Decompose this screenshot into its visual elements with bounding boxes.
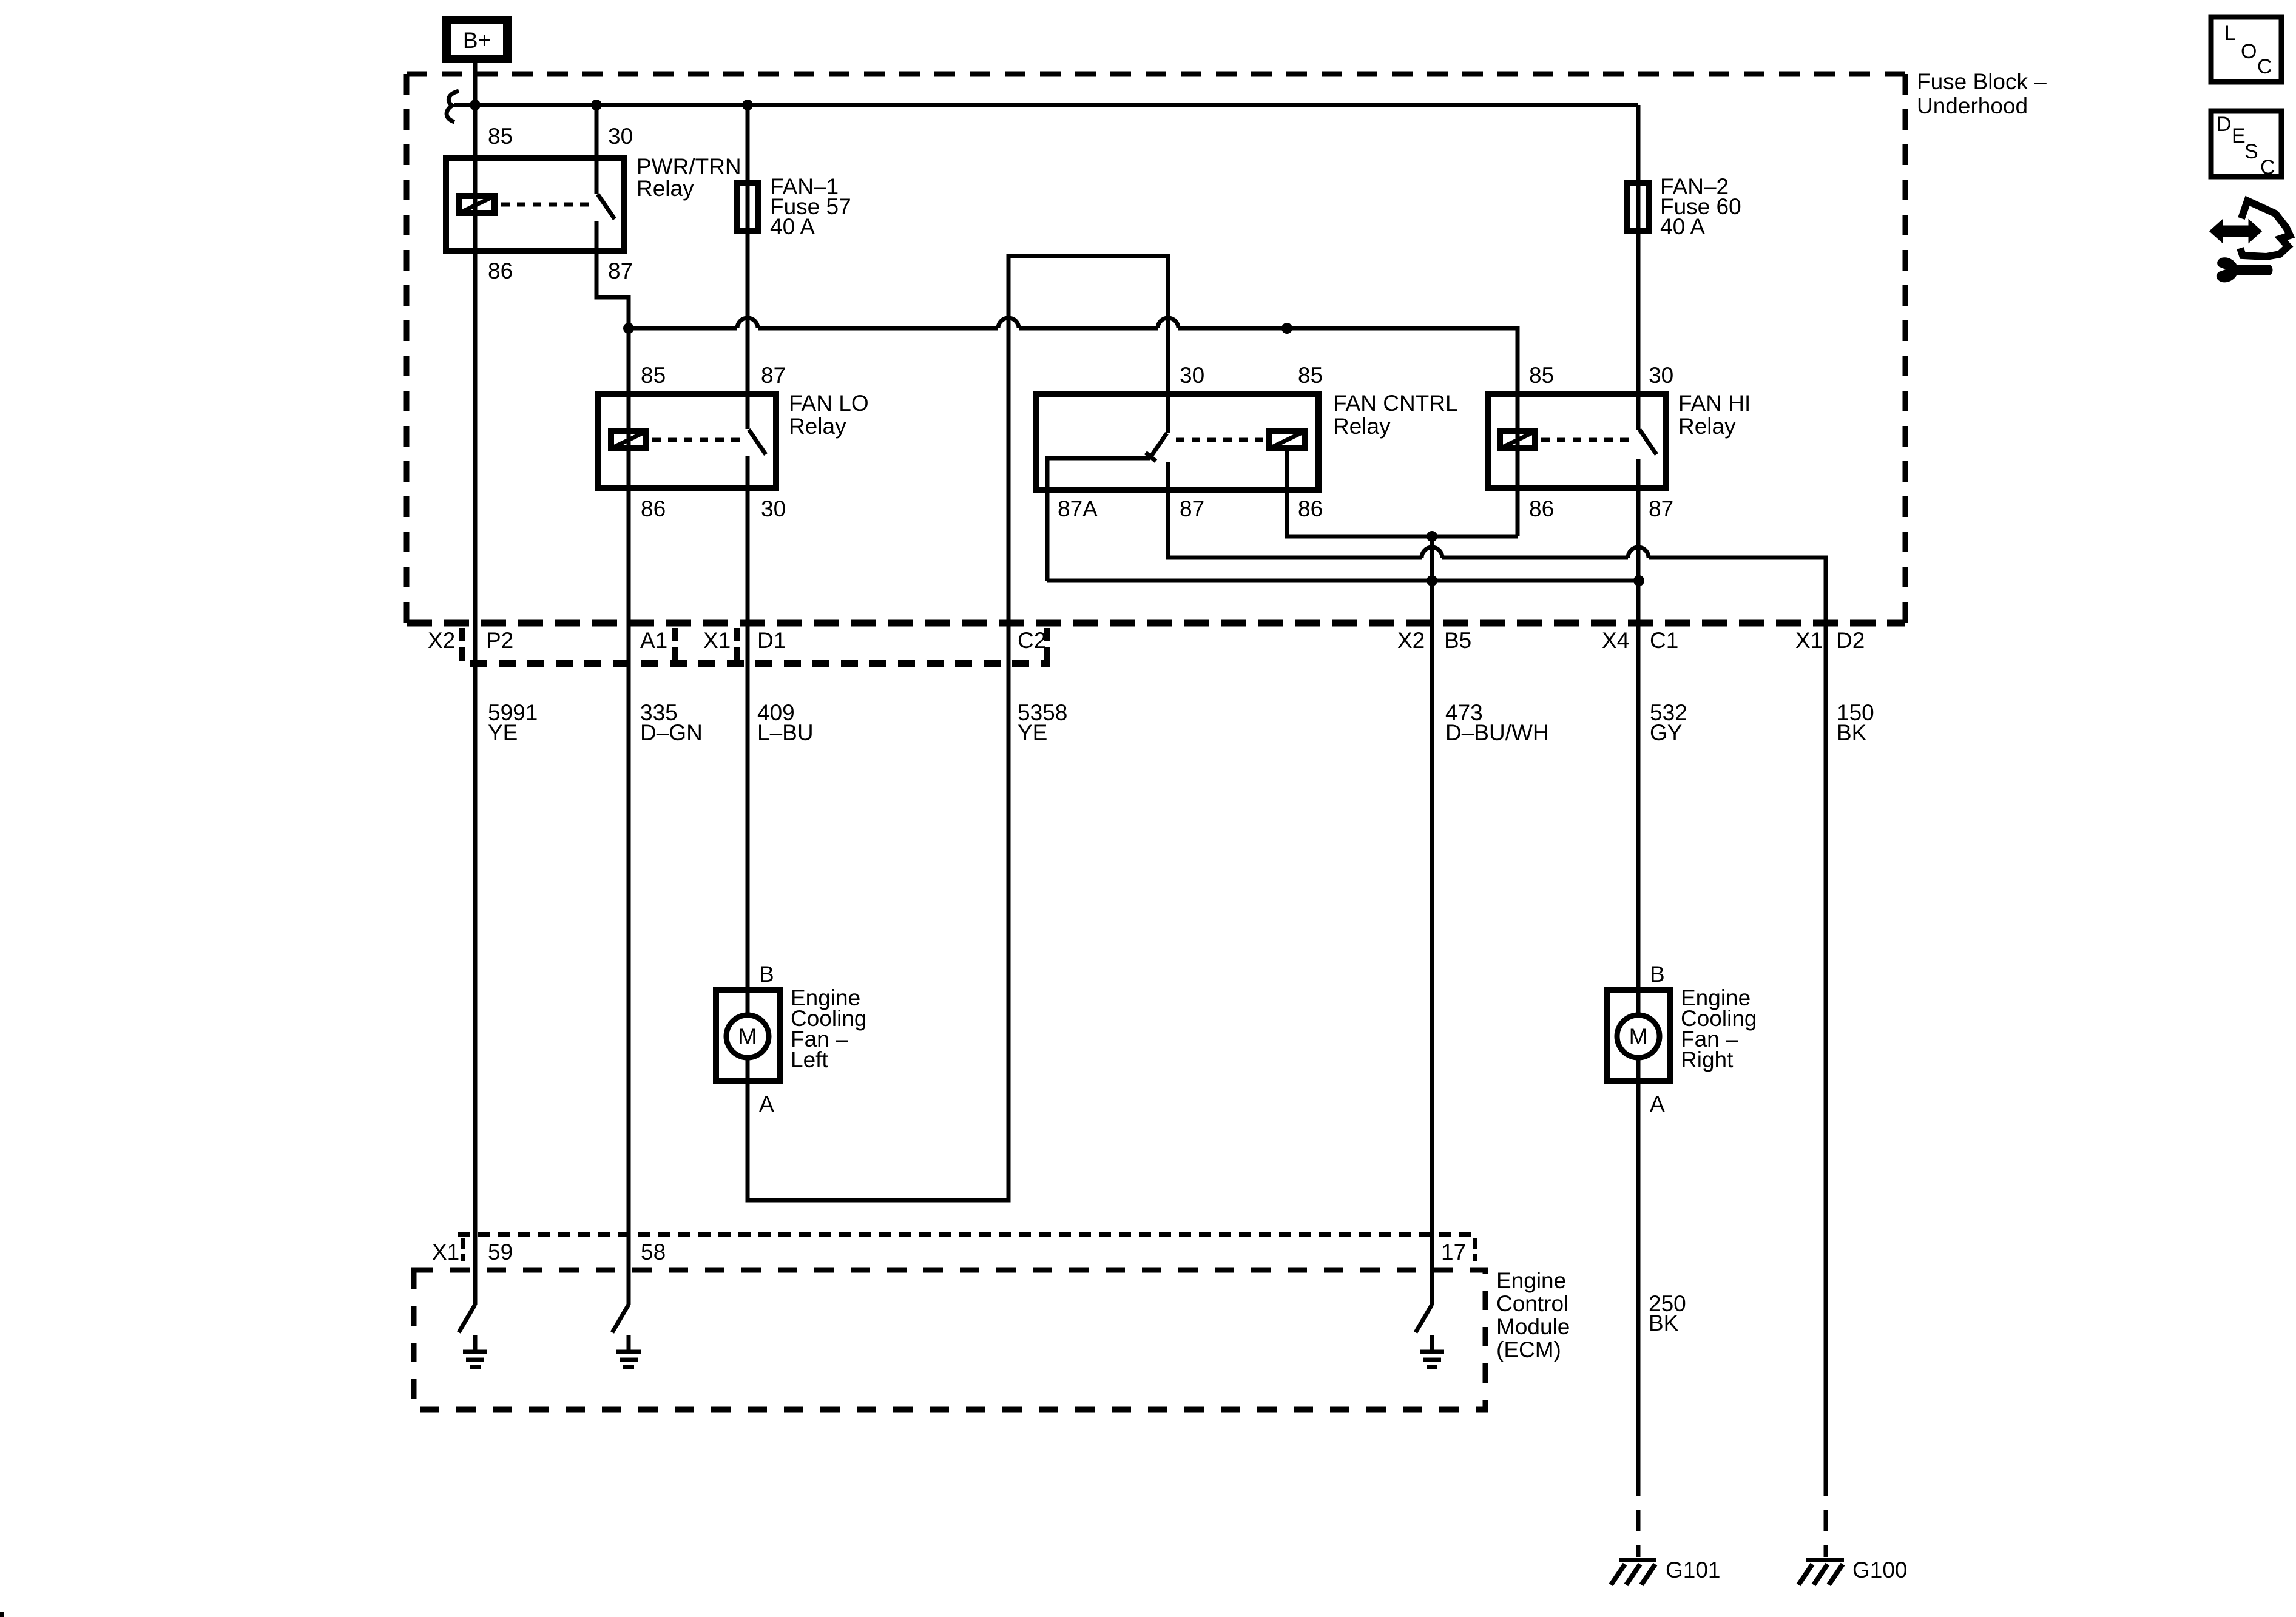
relay FAN CNTRL coil [1269,431,1305,448]
relay FAN HI switch blade [1639,430,1656,454]
svg-text:YE: YE [1018,720,1047,745]
svg-text:B: B [1650,962,1665,987]
svg-text:X4: X4 [1602,628,1629,653]
connector separator tick after X1 [734,628,740,661]
wire row3: FAN CNTRL 87A to C1 node [1047,579,1639,583]
relay FAN HI box [1488,394,1666,488]
FAN LO pin labels 85 87 86 30 [641,363,786,521]
svg-text:86: 86 [1529,496,1554,521]
svg-text:Fuse Block –: Fuse Block – [1917,69,2047,94]
wire 150 BK dashed tail to G100 [1824,1474,1828,1557]
node row3 to C1 wire [1633,575,1644,586]
svg-text:85: 85 [1529,363,1554,388]
svg-text:L–BU: L–BU [757,720,814,745]
splice curl at battery feed [447,91,475,122]
ECM driver switch pin 58 [612,1305,629,1332]
svg-text:O: O [2241,40,2257,63]
row2 hop over B5 wire [1422,547,1442,558]
svg-text:C: C [2257,55,2272,78]
svg-text:B: B [759,962,774,987]
svg-text:G100: G100 [1852,1558,1908,1582]
svg-text:30: 30 [608,124,633,149]
PWR/TRN pin labels 85 30 86 87 [488,124,633,283]
connector pin labels X2 P2 A1 X1 D1 C2 X2 B5 X4 C1 X1 D2 [428,628,1865,653]
connector separator tick after C2 [1044,628,1050,661]
legend LOC box [2211,17,2281,82]
wire label 532 GY [1650,700,1687,745]
ECM pin labels X1 59 58 17 [432,1240,1466,1264]
svg-text:85: 85 [641,363,666,388]
connector separator tick after A1 [672,628,678,661]
svg-text:P2: P2 [486,628,513,653]
svg-text:BK: BK [1837,720,1867,745]
ECM connector face line X1 [458,1232,1473,1237]
svg-text:Underhood: Underhood [1917,93,2028,118]
svg-text:X1: X1 [1795,628,1823,653]
relay PWR/TRN coil [459,196,495,213]
row2 hop over C1 wire [1628,547,1649,558]
svg-text:GY: GY [1650,720,1682,745]
wire label 335 D-GN [640,700,703,745]
svg-text:D–BU/WH: D–BU/WH [1445,720,1549,745]
svg-text:Relay: Relay [1333,414,1391,439]
relay FAN LO box [598,394,776,488]
wire left fan A / C2 / 5358 YE loop to FAN CNTRL pin 30 [748,256,1168,1200]
svg-text:Engine: Engine [1496,1268,1566,1293]
svg-text:X2: X2 [428,628,455,653]
label FAN HI Relay [1678,391,1751,439]
node bus1 to B+ [470,100,481,110]
ECM connector tick after X1 [461,1238,465,1261]
relay FAN CNTRL switch blade [1146,433,1167,461]
label FAN CNTRL Relay [1333,391,1458,439]
svg-text:X1: X1 [703,628,731,653]
left fan pin labels B A [759,962,774,1116]
svg-text:87: 87 [608,258,633,283]
wire 250 BK dashed tail to G101 [1636,1474,1641,1557]
node bus1 to FAN-1 fuse [742,100,753,110]
relay PWR/TRN box [446,158,624,251]
svg-text:(ECM): (ECM) [1496,1337,1561,1362]
relay FAN CNTRL 87A internal path [1047,458,1150,581]
svg-text:PWR/TRN: PWR/TRN [636,154,741,179]
legend service icon: double arrow, outline arrow, wrench [2210,201,2290,282]
wire right fan A / 250 BK ground lead [1636,1058,1641,1474]
svg-text:A: A [759,1092,774,1116]
svg-text:30: 30 [1649,363,1673,388]
bus2 hop over FAN-1 output wire [737,318,758,328]
wire FAN-2 fuse feed to FAN HI pin 30 [1636,105,1641,430]
svg-text:D–GN: D–GN [640,720,703,745]
bus2 hop over FAN CNTRL pin 30 wire [1158,318,1178,328]
label PWR/TRN Relay [636,154,741,201]
svg-text:40 A: 40 A [770,214,815,239]
svg-text:Right: Right [1681,1047,1734,1072]
motor M1 engine cooling fan left [716,990,780,1081]
label FAN-2 Fuse 60 40 A [1660,174,1741,239]
svg-text:A: A [1650,1092,1665,1116]
svg-text:Control: Control [1496,1291,1568,1316]
ECM driver switch pin 17 [1416,1305,1432,1332]
wire label 150 BK [1837,700,1874,745]
relay FAN LO coil [611,431,646,448]
svg-text:M: M [738,1024,757,1049]
connector face bottom dashed line [470,660,1050,667]
svg-text:87: 87 [1649,496,1673,521]
ECM internal ground pin 17 [1420,1335,1444,1367]
svg-text:58: 58 [641,1240,666,1264]
label Engine Cooling Fan - Right [1681,985,1757,1072]
ECM internal ground pin 58 [616,1335,641,1367]
relay PWR/TRN switch pin30-pin87 [596,105,629,328]
wire bus2 switched feed to relay coils [629,328,1518,536]
wire coil common 86-86 U link [1287,451,1518,536]
svg-text:D: D [2217,113,2232,136]
svg-text:30: 30 [761,496,786,521]
ECM module dashed box [414,1270,1485,1409]
relay FAN LO switch blade [749,430,766,454]
connector separator tick after X2 [459,628,465,661]
motor M2 engine cooling fan right [1607,990,1670,1081]
wire B+ feed / PWR-TRN coil 85-86 / P2 / 5991 YE down to ECM pin 59 [473,63,478,1305]
svg-text:C2: C2 [1018,628,1046,653]
wire label 5358 YE [1018,700,1067,745]
svg-text:Relay: Relay [789,414,846,439]
ECM driver switch pin 59 [459,1305,475,1332]
svg-text:M: M [1629,1024,1648,1049]
relay FAN CNTRL box [1036,394,1319,490]
relay FAN HI coil [1500,431,1535,448]
wire label 250 BK [1649,1291,1686,1335]
wire label 5991 YE [488,700,538,745]
wire label 409 L-BU [757,700,814,745]
svg-text:YE: YE [488,720,518,745]
svg-text:D2: D2 [1836,628,1865,653]
relay PWR/TRN mechanical link [501,203,590,207]
legend DESC box [2211,111,2281,179]
bus2 hop over C2 wire [998,318,1019,328]
svg-text:Relay: Relay [1678,414,1736,439]
svg-text:Relay: Relay [636,176,694,201]
svg-text:85: 85 [1298,363,1323,388]
svg-text:85: 85 [488,124,513,149]
page artifact dot [0,1612,4,1617]
svg-text:86: 86 [488,258,513,283]
right fan pin labels B A [1650,962,1665,1116]
svg-text:87A: 87A [1058,496,1098,521]
ground G100 [1798,1560,1844,1585]
label FAN LO Relay [789,391,869,439]
svg-text:S: S [2244,140,2258,163]
label Engine Cooling Fan - Left [791,985,866,1072]
relay FAN CNTRL mechanical link [1176,438,1265,442]
label Engine Control Module (ECM) [1496,1268,1570,1362]
svg-text:86: 86 [641,496,666,521]
fuse block - underhood boundary (dashed box) [407,74,1905,623]
svg-text:30: 30 [1180,363,1204,388]
node 86 common to B5 wire [1427,531,1437,542]
node bus1 to PWR/TRN pin 30 [591,100,602,110]
svg-text:87: 87 [761,363,786,388]
relay FAN LO mechanical link [652,438,741,442]
svg-text:FAN HI: FAN HI [1678,391,1751,416]
node bus2 to FAN CNTRL coil 85 [1281,323,1292,334]
svg-text:40 A: 40 A [1660,214,1705,239]
svg-text:BK: BK [1649,1311,1679,1335]
svg-text:G101: G101 [1666,1558,1721,1582]
node row3 to B5 wire [1427,575,1437,586]
svg-text:D1: D1 [757,628,786,653]
relay FAN HI mechanical link [1541,438,1630,442]
wire label 473 D-BU/WH [1445,700,1549,745]
svg-text:A1: A1 [640,628,667,653]
svg-text:Module: Module [1496,1314,1570,1339]
svg-text:L: L [2224,22,2236,45]
svg-text:X1: X1 [432,1240,459,1264]
svg-text:B5: B5 [1444,628,1471,653]
svg-text:87: 87 [1180,496,1204,521]
svg-text:C1: C1 [1650,628,1678,653]
FAN HI pin labels 85 30 86 87 [1529,363,1673,521]
wire B5 / 473 D-BU/WH down to ECM pin 17 [1430,536,1434,1305]
ground G101 [1611,1560,1656,1585]
svg-text:86: 86 [1298,496,1323,521]
ECM internal ground pin 59 [463,1335,487,1367]
power terminal B+ [447,20,507,59]
svg-text:FAN CNTRL: FAN CNTRL [1333,391,1458,416]
svg-text:E: E [2232,124,2246,147]
wire FAN LO pin 30 / D1 / 409 L-BU to left fan B [746,456,750,1015]
ECM connector tick after 17 [1473,1238,1477,1261]
fuse FAN-2 Fuse 60 [1627,183,1649,231]
svg-text:59: 59 [488,1240,513,1264]
label FAN-1 Fuse 57 40 A [770,174,851,239]
label Fuse Block - Underhood [1917,69,2047,118]
svg-text:B+: B+ [463,28,491,53]
wire FAN-1 fuse feed to FAN LO pin 87 [746,105,750,429]
fuse FAN-1 Fuse 57 [737,183,758,231]
FAN CNTRL pin labels 30 85 87A 87 86 [1058,363,1323,521]
svg-text:C: C [2260,156,2275,179]
wire FAN HI pin 87 / C1 / 532 GY to right fan B [1636,459,1641,1015]
wire row2: FAN CNTRL 87 / D2 / 150 BK ground run [1168,462,1826,1474]
svg-text:Left: Left [791,1047,828,1072]
svg-text:17: 17 [1441,1240,1466,1264]
node bus2 start / FAN LO pin 85 tap [623,323,634,334]
wire FAN LO coil 86 / A1 / 335 D-GN down to ECM pin 58 [627,328,631,1305]
svg-text:FAN LO: FAN LO [789,391,869,416]
wire bus1 battery feed [475,103,1638,107]
svg-text:X2: X2 [1397,628,1425,653]
